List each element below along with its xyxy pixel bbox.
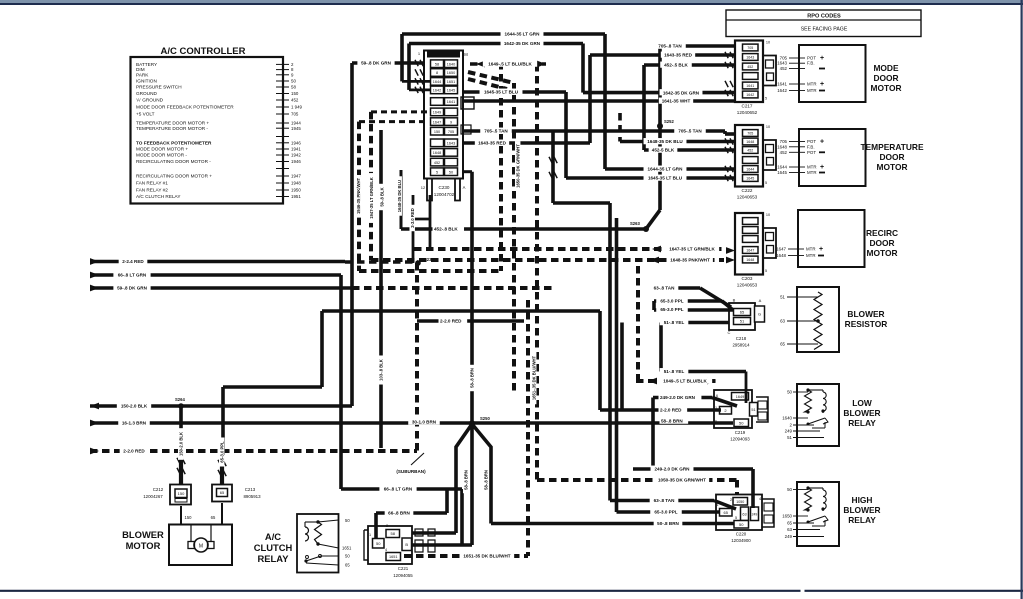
svg-text:A: A bbox=[463, 185, 466, 190]
svg-text:150: 150 bbox=[185, 515, 193, 520]
svg-text:DOOR: DOOR bbox=[873, 73, 898, 83]
svg-text:SEE FACING PAGE: SEE FACING PAGE bbox=[801, 27, 848, 33]
svg-text:M: M bbox=[199, 543, 203, 549]
svg-text:58-.8 BRN: 58-.8 BRN bbox=[464, 470, 469, 490]
svg-text:2-2.0 RED: 2-2.0 RED bbox=[123, 449, 145, 454]
svg-text:1945: 1945 bbox=[291, 126, 301, 131]
svg-text:66-.8 LT GRN: 66-.8 LT GRN bbox=[384, 487, 413, 492]
svg-text:59-.8 DK GRN: 59-.8 DK GRN bbox=[117, 286, 148, 291]
svg-text:+: + bbox=[820, 55, 824, 62]
svg-text:59-.8 BLK: 59-.8 BLK bbox=[380, 187, 385, 206]
svg-text:51: 51 bbox=[787, 435, 792, 440]
svg-text:1951: 1951 bbox=[291, 194, 301, 199]
svg-text:1650: 1650 bbox=[447, 71, 455, 75]
svg-text:452: 452 bbox=[291, 98, 299, 103]
svg-text:65-3.0 PPL: 65-3.0 PPL bbox=[220, 441, 225, 463]
svg-text:1644: 1644 bbox=[433, 80, 441, 84]
svg-text:1650-35 DK GRN/WHT: 1650-35 DK GRN/WHT bbox=[516, 144, 521, 188]
svg-text:58-.8 BRN: 58-.8 BRN bbox=[661, 419, 683, 424]
svg-text:1946: 1946 bbox=[291, 159, 301, 164]
svg-text:12004702: 12004702 bbox=[434, 192, 455, 197]
svg-text:452-.5 BLK: 452-.5 BLK bbox=[664, 63, 688, 68]
svg-text:5: 5 bbox=[765, 181, 767, 185]
svg-text:66-.8 LT GRN: 66-.8 LT GRN bbox=[118, 273, 147, 278]
svg-text:5: 5 bbox=[735, 516, 737, 520]
svg-text:1647: 1647 bbox=[776, 247, 786, 252]
svg-text:C222: C222 bbox=[742, 188, 753, 193]
svg-text:PRESSURE SWITCH: PRESSURE SWITCH bbox=[136, 85, 182, 90]
svg-text:249-2.0 DK GRN: 249-2.0 DK GRN bbox=[655, 467, 691, 472]
svg-text:RELAY: RELAY bbox=[258, 553, 290, 564]
svg-text:RESISTOR: RESISTOR bbox=[845, 319, 888, 329]
svg-text:1645-35 LT BLU: 1645-35 LT BLU bbox=[484, 90, 519, 95]
svg-text:1947-35 LT GRN/BLK: 1947-35 LT GRN/BLK bbox=[369, 177, 374, 219]
svg-text:1648-35 DK BLU: 1648-35 DK BLU bbox=[647, 139, 683, 144]
svg-text:C: C bbox=[728, 330, 731, 335]
svg-text:12094055: 12094055 bbox=[393, 573, 413, 578]
svg-text:12: 12 bbox=[421, 185, 426, 190]
svg-text:1640: 1640 bbox=[782, 416, 792, 421]
svg-text:DOOR: DOOR bbox=[879, 152, 904, 162]
svg-text:249: 249 bbox=[785, 429, 793, 434]
svg-text:+: + bbox=[820, 139, 824, 146]
svg-text:C220: C220 bbox=[736, 532, 747, 537]
svg-text:51-.8 YEL: 51-.8 YEL bbox=[664, 369, 685, 374]
svg-text:MOTOR: MOTOR bbox=[126, 540, 161, 551]
svg-text:S250: S250 bbox=[480, 416, 490, 421]
svg-text:50: 50 bbox=[787, 487, 792, 492]
svg-text:65-3.0 PPL: 65-3.0 PPL bbox=[660, 299, 683, 304]
svg-text:1644-35 LT GRN: 1644-35 LT GRN bbox=[505, 32, 541, 37]
svg-text:65: 65 bbox=[740, 310, 745, 315]
svg-text:4: 4 bbox=[385, 548, 387, 552]
svg-text:63: 63 bbox=[780, 319, 785, 324]
svg-text:MODE DOOR MOTOR -: MODE DOOR MOTOR - bbox=[136, 153, 187, 158]
svg-text:1651: 1651 bbox=[342, 546, 352, 551]
svg-text:C212: C212 bbox=[153, 487, 164, 492]
svg-text:1649-.5 LT BLU/BLK: 1649-.5 LT BLU/BLK bbox=[488, 62, 532, 67]
svg-text:MTR: MTR bbox=[807, 170, 817, 175]
svg-text:2-2.0 RED: 2-2.0 RED bbox=[660, 408, 682, 413]
svg-text:1645: 1645 bbox=[746, 177, 754, 181]
svg-text:452: 452 bbox=[780, 150, 788, 155]
svg-text:50: 50 bbox=[739, 420, 744, 425]
svg-text:705: 705 bbox=[448, 130, 454, 134]
svg-text:1648-35 DK BLU: 1648-35 DK BLU bbox=[397, 180, 402, 212]
svg-text:1648: 1648 bbox=[433, 151, 441, 155]
svg-text:249: 249 bbox=[785, 534, 793, 539]
svg-text:51: 51 bbox=[740, 319, 745, 324]
svg-text:1651-35 DK BLU/WHT: 1651-35 DK BLU/WHT bbox=[463, 554, 510, 559]
svg-text:1942: 1942 bbox=[291, 153, 301, 158]
svg-text:50: 50 bbox=[376, 541, 381, 546]
svg-text:5: 5 bbox=[765, 269, 767, 273]
svg-text:8905913: 8905913 bbox=[243, 494, 261, 499]
svg-text:65: 65 bbox=[787, 521, 792, 526]
svg-text:150: 150 bbox=[178, 491, 185, 496]
svg-text:RPO CODES: RPO CODES bbox=[807, 13, 841, 19]
svg-text:BLOWER: BLOWER bbox=[122, 529, 164, 540]
svg-text:1643: 1643 bbox=[447, 142, 455, 146]
svg-text:G: G bbox=[758, 312, 761, 317]
svg-text:1642: 1642 bbox=[746, 93, 754, 97]
svg-text:58-.8 BRN: 58-.8 BRN bbox=[470, 368, 475, 388]
svg-text:C230: C230 bbox=[439, 185, 450, 190]
svg-text:58: 58 bbox=[391, 531, 396, 536]
svg-text:C218: C218 bbox=[736, 336, 747, 341]
svg-text:BLOWER: BLOWER bbox=[843, 408, 880, 418]
svg-text:103-.8 BLK: 103-.8 BLK bbox=[379, 359, 384, 381]
svg-text:A/C CLUTCH RELAY: A/C CLUTCH RELAY bbox=[136, 194, 181, 199]
svg-text:65: 65 bbox=[211, 515, 216, 520]
svg-text:LOW: LOW bbox=[852, 398, 872, 408]
svg-text:S264: S264 bbox=[175, 397, 185, 402]
svg-text:MTR: MTR bbox=[807, 88, 817, 93]
svg-text:F.B.: F.B. bbox=[807, 61, 815, 66]
svg-text:MTR: MTR bbox=[806, 247, 816, 252]
svg-text:IGNITION: IGNITION bbox=[136, 79, 157, 84]
svg-text:1050: 1050 bbox=[736, 500, 744, 504]
svg-text:65-3.0 PPL: 65-3.0 PPL bbox=[654, 510, 677, 515]
svg-text:8: 8 bbox=[436, 71, 438, 75]
svg-text:MTR: MTR bbox=[807, 165, 817, 170]
svg-text:63: 63 bbox=[742, 512, 746, 516]
svg-text:2-2.4 RED: 2-2.4 RED bbox=[122, 259, 144, 264]
svg-text:1948: 1948 bbox=[291, 181, 301, 186]
svg-text:1644-35 LT GRN: 1644-35 LT GRN bbox=[648, 167, 684, 172]
svg-text:FAN RELAY #1: FAN RELAY #1 bbox=[136, 181, 168, 186]
svg-text:RECIRCULATING DOOR MOTOR +: RECIRCULATING DOOR MOTOR + bbox=[136, 174, 212, 179]
svg-text:+5 VOLT: +5 VOLT bbox=[136, 112, 155, 117]
svg-text:65: 65 bbox=[220, 490, 225, 495]
svg-text:B: B bbox=[733, 298, 736, 303]
svg-text:50: 50 bbox=[345, 554, 350, 559]
svg-text:150-2.0 BLK: 150-2.0 BLK bbox=[121, 404, 148, 409]
svg-text:10: 10 bbox=[766, 41, 770, 45]
svg-text:1648: 1648 bbox=[777, 144, 787, 149]
svg-text:HIGH: HIGH bbox=[852, 495, 873, 505]
svg-text:63: 63 bbox=[787, 527, 792, 532]
svg-text:1050-35 DK GRN/WHT: 1050-35 DK GRN/WHT bbox=[658, 478, 706, 483]
svg-text:1650: 1650 bbox=[782, 514, 792, 519]
svg-text:2958914: 2958914 bbox=[732, 343, 750, 348]
svg-text:1648: 1648 bbox=[776, 253, 786, 258]
svg-text:63-.8 TAN: 63-.8 TAN bbox=[654, 498, 676, 503]
svg-text:58: 58 bbox=[435, 62, 439, 66]
svg-text:10: 10 bbox=[766, 213, 770, 217]
svg-text:1641: 1641 bbox=[746, 84, 754, 88]
svg-text:BLOWER: BLOWER bbox=[847, 309, 884, 319]
svg-text:12034900: 12034900 bbox=[731, 538, 751, 543]
svg-text:C221: C221 bbox=[398, 566, 409, 571]
svg-text:705-.5 TAN: 705-.5 TAN bbox=[678, 129, 702, 134]
svg-text:58: 58 bbox=[291, 85, 296, 90]
svg-text:MOTOR: MOTOR bbox=[870, 83, 901, 93]
svg-text:1651-.35 DK BLU/WHT: 1651-.35 DK BLU/WHT bbox=[532, 355, 537, 400]
svg-text:50: 50 bbox=[739, 522, 744, 527]
svg-text:1647: 1647 bbox=[433, 120, 441, 124]
svg-text:1640: 1640 bbox=[447, 62, 455, 66]
svg-text:1642-35 DK GRN: 1642-35 DK GRN bbox=[504, 41, 541, 46]
svg-text:51: 51 bbox=[751, 408, 755, 412]
svg-text:50: 50 bbox=[345, 518, 350, 523]
svg-text:1947: 1947 bbox=[291, 174, 301, 179]
svg-text:RELAY: RELAY bbox=[848, 515, 876, 525]
svg-text:452-5 BLK: 452-5 BLK bbox=[652, 148, 675, 153]
svg-text:MODE DOOR MOTOR +: MODE DOOR MOTOR + bbox=[136, 147, 188, 152]
svg-text:150-2.0 BLK: 150-2.0 BLK bbox=[179, 432, 184, 456]
svg-text:5: 5 bbox=[436, 170, 438, 174]
svg-text:TEMPERATURE DOOR MOTOR -: TEMPERATURE DOOR MOTOR - bbox=[136, 126, 208, 131]
svg-text:12040652: 12040652 bbox=[737, 110, 758, 115]
svg-text:1642-35 DK GRN: 1642-35 DK GRN bbox=[663, 90, 700, 95]
svg-text:1642: 1642 bbox=[433, 89, 441, 93]
svg-text:TO FEEDBACK POTENTIOMETER: TO FEEDBACK POTENTIOMETER bbox=[136, 140, 212, 145]
svg-text:1642: 1642 bbox=[777, 88, 787, 93]
svg-text:+: + bbox=[819, 246, 823, 253]
svg-text:MOTOR: MOTOR bbox=[866, 248, 897, 258]
svg-text:MOTOR: MOTOR bbox=[876, 162, 907, 172]
svg-text:9: 9 bbox=[450, 120, 452, 124]
svg-text:705: 705 bbox=[291, 112, 299, 117]
svg-text:C213: C213 bbox=[245, 487, 256, 492]
svg-text:50-.8 BRN: 50-.8 BRN bbox=[657, 521, 679, 526]
svg-text:63-.8 TAN: 63-.8 TAN bbox=[654, 286, 676, 291]
svg-text:1647: 1647 bbox=[746, 249, 754, 253]
svg-text:1641: 1641 bbox=[777, 82, 787, 87]
svg-text:2-2.0 RED: 2-2.0 RED bbox=[440, 319, 462, 324]
svg-text:+: + bbox=[820, 164, 824, 171]
svg-text:A: A bbox=[759, 298, 762, 303]
svg-text:150: 150 bbox=[291, 91, 299, 96]
svg-text:51-.8 YEL: 51-.8 YEL bbox=[664, 320, 685, 325]
svg-text:452: 452 bbox=[747, 65, 753, 69]
svg-text:(SUBURBAN): (SUBURBAN) bbox=[396, 469, 426, 474]
svg-text:1950: 1950 bbox=[291, 188, 301, 193]
svg-text:S231: S231 bbox=[424, 257, 434, 262]
svg-text:2: 2 bbox=[386, 524, 388, 528]
svg-text:1644: 1644 bbox=[746, 168, 754, 172]
svg-text:452: 452 bbox=[780, 66, 788, 71]
svg-text:4: 4 bbox=[759, 497, 761, 501]
svg-text:5: 5 bbox=[765, 97, 767, 101]
svg-text:12040653: 12040653 bbox=[737, 195, 758, 200]
svg-text:1647-35 LT GRN/BLK: 1647-35 LT GRN/BLK bbox=[669, 247, 715, 252]
svg-text:C219: C219 bbox=[735, 430, 746, 435]
svg-text:RECIRC: RECIRC bbox=[866, 228, 898, 238]
svg-text:50: 50 bbox=[787, 390, 792, 395]
svg-text:1644: 1644 bbox=[777, 165, 787, 170]
svg-text:16-1.3 BRN: 16-1.3 BRN bbox=[122, 421, 147, 426]
svg-text:452: 452 bbox=[434, 161, 440, 165]
svg-text:RECIRCULATING DOOR MOTOR -: RECIRCULATING DOOR MOTOR - bbox=[136, 159, 211, 164]
svg-text:12094093: 12094093 bbox=[730, 437, 750, 442]
svg-text:2-3.0 RED: 2-3.0 RED bbox=[410, 208, 415, 228]
svg-text:150: 150 bbox=[434, 130, 440, 134]
svg-text:MODE DOOR FEEDBACK POTENTIOMET: MODE DOOR FEEDBACK POTENTIOMETER bbox=[136, 105, 234, 110]
svg-text:1 949: 1 949 bbox=[291, 105, 303, 110]
svg-text:51: 51 bbox=[780, 295, 785, 300]
svg-text:1648: 1648 bbox=[746, 258, 754, 262]
svg-text:S252: S252 bbox=[664, 119, 674, 124]
svg-text:MODE: MODE bbox=[873, 63, 899, 73]
svg-text:10: 10 bbox=[766, 125, 770, 129]
svg-text:65: 65 bbox=[780, 342, 785, 347]
svg-text:50: 50 bbox=[449, 170, 453, 174]
svg-text:58-.8 BRN: 58-.8 BRN bbox=[484, 470, 489, 490]
svg-text:1643-35 RED: 1643-35 RED bbox=[478, 141, 507, 146]
svg-text:BLOWER: BLOWER bbox=[843, 505, 880, 515]
svg-text:POT: POT bbox=[807, 150, 816, 155]
svg-text:452-.8 BLK: 452-.8 BLK bbox=[434, 227, 458, 232]
svg-text:705: 705 bbox=[747, 46, 753, 50]
svg-text:'A' GROUND: 'A' GROUND bbox=[136, 98, 164, 103]
svg-text:65: 65 bbox=[345, 563, 350, 568]
svg-text:1645-35 LT BLU: 1645-35 LT BLU bbox=[648, 176, 683, 181]
svg-text:1643: 1643 bbox=[746, 56, 754, 60]
svg-text:249-2.0 DK GRN: 249-2.0 DK GRN bbox=[660, 395, 696, 400]
svg-text:249: 249 bbox=[752, 512, 758, 516]
svg-text:C217: C217 bbox=[742, 104, 753, 109]
svg-text:65: 65 bbox=[724, 510, 729, 515]
svg-text:1941: 1941 bbox=[291, 147, 301, 152]
svg-text:S263: S263 bbox=[630, 221, 640, 226]
svg-text:TEMPERATURE: TEMPERATURE bbox=[860, 142, 924, 152]
svg-text:A/C: A/C bbox=[265, 531, 281, 542]
svg-text:705: 705 bbox=[747, 132, 753, 136]
svg-text:12040653: 12040653 bbox=[737, 283, 758, 288]
svg-text:DOOR: DOOR bbox=[869, 238, 894, 248]
svg-text:66-.8 BRN: 66-.8 BRN bbox=[388, 511, 410, 516]
svg-text:POT: POT bbox=[807, 139, 816, 144]
svg-text:1: 1 bbox=[369, 533, 371, 537]
svg-text:1049-.5 LT BLU/BLK: 1049-.5 LT BLU/BLK bbox=[663, 379, 707, 384]
svg-text:+: + bbox=[820, 81, 824, 88]
svg-text:CLUTCH: CLUTCH bbox=[254, 542, 293, 553]
svg-text:FAN RELAY #2: FAN RELAY #2 bbox=[136, 188, 168, 193]
svg-text:12004267: 12004267 bbox=[143, 494, 163, 499]
svg-text:MTR: MTR bbox=[807, 82, 817, 87]
svg-text:B: B bbox=[405, 542, 408, 547]
svg-text:1651: 1651 bbox=[389, 555, 397, 559]
svg-text:GROUND: GROUND bbox=[136, 91, 157, 96]
svg-text:MTR: MTR bbox=[806, 253, 816, 258]
svg-text:F.B.: F.B. bbox=[807, 144, 815, 149]
svg-text:1649: 1649 bbox=[433, 111, 441, 115]
svg-text:1645: 1645 bbox=[777, 170, 787, 175]
svg-text:1643-35 RED: 1643-35 RED bbox=[664, 53, 693, 58]
svg-text:2: 2 bbox=[730, 498, 732, 502]
svg-text:C203: C203 bbox=[742, 276, 753, 281]
svg-text:1641: 1641 bbox=[447, 100, 455, 104]
svg-text:1946: 1946 bbox=[291, 140, 301, 145]
svg-text:705-.8 TAN: 705-.8 TAN bbox=[658, 44, 682, 49]
svg-text:705-.5 TAN: 705-.5 TAN bbox=[484, 129, 508, 134]
svg-text:1648-35 PNK/WHT: 1648-35 PNK/WHT bbox=[670, 258, 710, 263]
svg-text:1651: 1651 bbox=[447, 80, 455, 84]
svg-text:50: 50 bbox=[291, 79, 296, 84]
svg-text:59-.8 DK GRN: 59-.8 DK GRN bbox=[361, 61, 392, 66]
svg-text:452: 452 bbox=[747, 149, 753, 153]
svg-text:65-3.0 PPL: 65-3.0 PPL bbox=[660, 307, 683, 312]
svg-text:A/C CONTROLLER: A/C CONTROLLER bbox=[161, 46, 246, 57]
svg-text:1645: 1645 bbox=[447, 89, 455, 93]
svg-text:1648: 1648 bbox=[746, 140, 754, 144]
svg-text:1649: 1649 bbox=[736, 395, 744, 399]
svg-text:1946-35 PNK/WHT: 1946-35 PNK/WHT bbox=[356, 178, 361, 215]
svg-text:1641-35 WHT: 1641-35 WHT bbox=[662, 99, 691, 104]
svg-text:705: 705 bbox=[780, 139, 788, 144]
svg-text:1643: 1643 bbox=[777, 61, 787, 66]
svg-text:M: M bbox=[464, 52, 468, 57]
svg-text:30-1.0 BRN: 30-1.0 BRN bbox=[412, 420, 437, 425]
svg-text:PARK: PARK bbox=[136, 72, 149, 77]
svg-text:RELAY: RELAY bbox=[848, 418, 876, 428]
